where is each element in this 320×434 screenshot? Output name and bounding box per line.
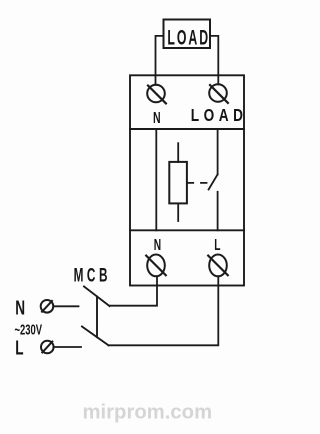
svg-text:N: N [153, 109, 161, 127]
wire bottom L terminal down and left to MCB pole 2 [109, 276, 219, 345]
pin label N top [153, 109, 161, 127]
svg-text:MCB: MCB [74, 266, 111, 287]
pin label N bottom [154, 236, 161, 254]
switch contact blade [209, 174, 218, 189]
terminal bottom N [146, 255, 166, 277]
wire switch contact to separator [217, 192, 219, 231]
svg-text:N: N [15, 297, 25, 319]
wire load box right hook [210, 36, 218, 84]
wire input L to MCB pole 2 [54, 346, 81, 348]
relay coil K1 [169, 162, 187, 204]
svg-text:LOAD: LOAD [167, 25, 210, 49]
dashed actuator link coil to contact [187, 182, 207, 184]
load box [164, 20, 211, 49]
load box label LOAD [167, 25, 210, 49]
terminal bottom L [208, 255, 228, 277]
wire N column top to bottom [155, 129, 157, 230]
wire bottom N terminal down and left to MCB pole 1 [110, 276, 158, 305]
pin label LOAD top [191, 106, 248, 125]
input terminal L [41, 341, 54, 354]
MCB pole 2 blade [82, 327, 109, 346]
separator bottom terminal block [130, 229, 244, 231]
pin label L bottom [214, 236, 220, 254]
svg-text:LOAD: LOAD [191, 106, 248, 125]
label N input [15, 297, 25, 319]
wire input N to MCB pole 1 [53, 305, 78, 307]
MCB mechanical link [96, 297, 98, 337]
wire LOAD column to switch contact [217, 129, 219, 174]
terminal top LOAD [209, 84, 228, 103]
svg-text:L: L [214, 236, 220, 254]
wire load box left hook [156, 36, 164, 85]
svg-text:N: N [154, 236, 161, 254]
relay coil K1 stub top [177, 143, 179, 162]
svg-text:mirprom.com: mirprom.com [83, 401, 213, 423]
svg-text:~230V: ~230V [15, 322, 43, 339]
label L input [15, 337, 23, 359]
label ~230V [15, 322, 43, 339]
MCB pole 1 blade [84, 287, 110, 307]
relay coil K1 stub bottom [177, 203, 179, 221]
module outline [130, 75, 244, 285]
svg-text:L: L [15, 337, 23, 359]
label MCB [74, 266, 111, 287]
input terminal N [41, 300, 54, 313]
separator top terminal block [130, 128, 244, 130]
terminal top N [147, 85, 166, 104]
